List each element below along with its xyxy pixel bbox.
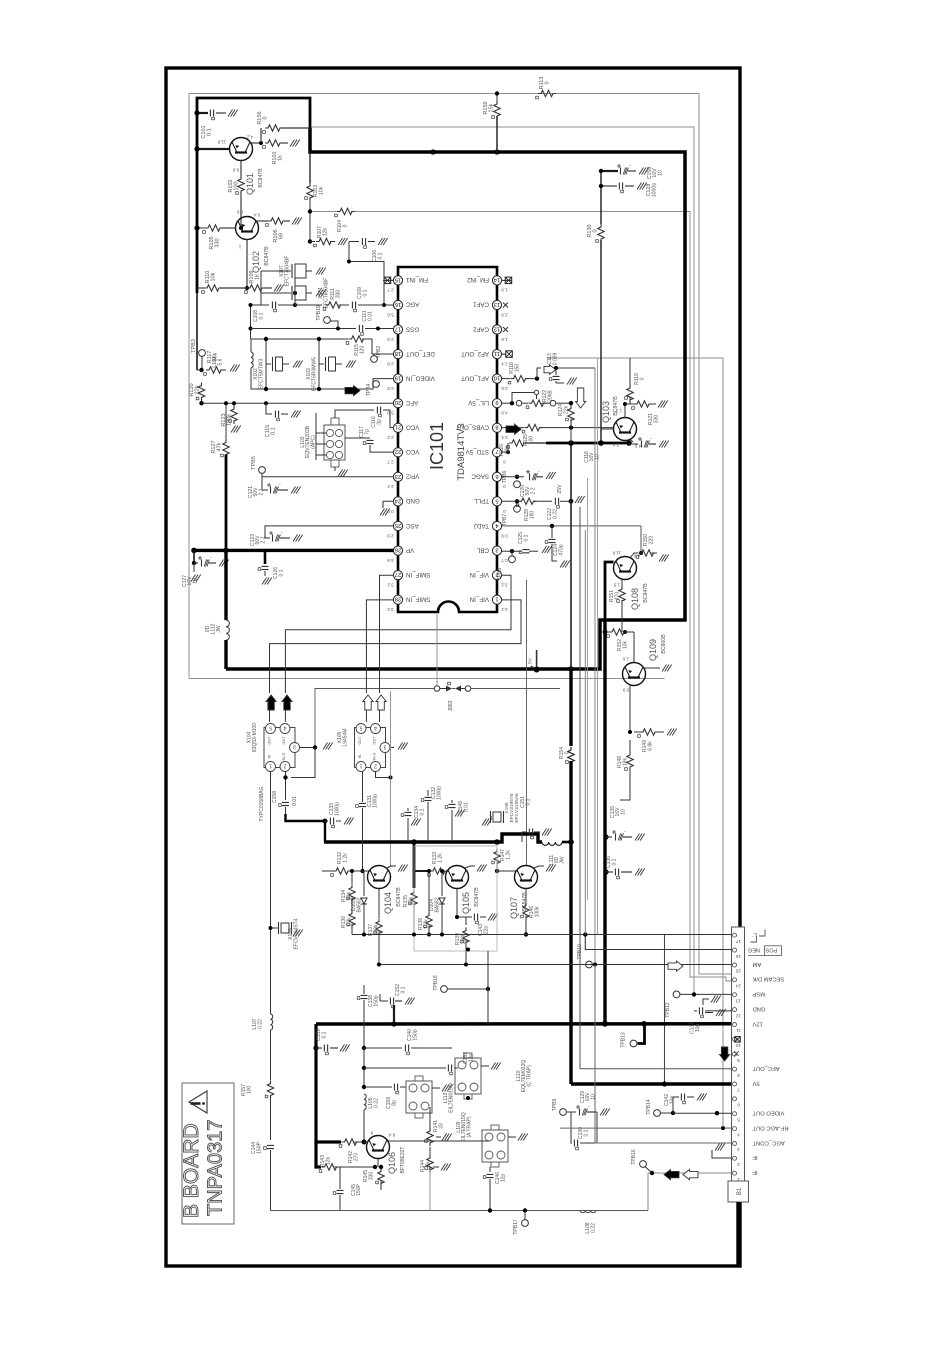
svg-text:6: 6 (737, 1102, 740, 1108)
test point TPB8 (509, 556, 516, 563)
svg-text:10k: 10k (211, 272, 217, 281)
svg-text:3p: 3p (377, 419, 383, 425)
capacitor C143 22p (456, 889, 458, 918)
wire IN feeds (270, 771, 272, 1014)
pin 1 of connector B1 (733, 1171, 737, 1175)
svg-text:2.8: 2.8 (387, 361, 394, 366)
junction (430, 149, 435, 154)
svg-text:150p: 150p (374, 995, 380, 1006)
pin 14 of connector B1 (733, 978, 737, 982)
capacitor C125 0.1 (523, 550, 530, 553)
svg-text:BFT99E32T: BFT99E32T (400, 1147, 406, 1174)
svg-text:IC101: IC101 (427, 422, 447, 470)
junction (568, 666, 574, 672)
capacitor C130 0.1 (571, 1112, 572, 1143)
svg-text:33: 33 (439, 1123, 445, 1129)
svg-text:IN-G: IN-G (373, 752, 377, 760)
svg-text:AFC_OUT: AFC_OUT (752, 1065, 780, 1071)
wire (363, 1068, 365, 1087)
svg-text:Q102: Q102 (251, 251, 261, 273)
svg-text:OUT: OUT (358, 736, 362, 745)
svg-text:12: 12 (736, 1012, 742, 1018)
capacitor C132 1000p (425, 797, 432, 800)
pin 23 VP/2 of IC101 (393, 472, 402, 481)
wire collector Q103 (624, 404, 626, 418)
ground pin 24 (383, 501, 393, 508)
test point TPB3 (199, 350, 206, 357)
svg-text:2.2: 2.2 (530, 487, 536, 494)
svg-text:28: 28 (395, 596, 401, 602)
svg-text:12k: 12k (323, 227, 329, 236)
ground Q104 (387, 866, 396, 868)
svg-text:5: 5 (269, 725, 272, 731)
pin 3 CBL of IC101 (492, 546, 501, 555)
test point TPB7 (515, 499, 519, 503)
crystal X106 EFCV3195T6 (493, 812, 501, 822)
svg-text:0.1: 0.1 (524, 534, 530, 541)
svg-text:2.4: 2.4 (387, 484, 394, 489)
svg-text:6.8k: 6.8k (648, 741, 654, 751)
svg-text:22k: 22k (505, 445, 511, 454)
resistor R147 1.2k (494, 849, 500, 867)
svg-text:AF1_OUT: AF1_OUT (461, 374, 489, 381)
crystal X107 EFCT7004BF (261, 270, 291, 272)
pin 28 SMIF_IN of IC101 (393, 595, 402, 604)
svg-text:Q101: Q101 (245, 173, 255, 195)
svg-text:SAGC: SAGC (471, 473, 489, 480)
svg-text:0.4: 0.4 (253, 212, 260, 217)
svg-text:TPB13: TPB13 (621, 1032, 627, 1048)
svg-text:0.22: 0.22 (591, 1223, 597, 1233)
wire (201, 356, 203, 370)
pin 16 of connector B1 (733, 948, 737, 952)
capacitor C138 150p (363, 985, 365, 994)
transistor Q103 BC847B (614, 418, 637, 441)
arrow tuning (576, 388, 586, 408)
svg-text:0.9: 0.9 (622, 687, 629, 692)
svg-text:L/L'_5V: L/L'_5V (467, 399, 489, 406)
pin 2 of connector B1 (733, 1156, 737, 1160)
test point TPB19 (324, 317, 331, 324)
capacitor C109 0.1 (339, 304, 350, 306)
svg-text:150P: 150P (356, 1184, 362, 1196)
svg-text:2.7: 2.7 (387, 288, 394, 293)
svg-text:20kB: 20kB (548, 390, 554, 402)
svg-text:MSP: MSP (752, 991, 765, 997)
arrow VIF out1 (266, 695, 276, 710)
svg-text:15k: 15k (489, 103, 495, 112)
resistor R135 10k (411, 890, 417, 908)
svg-text:100: 100 (234, 181, 240, 190)
resistor R118 150 (502, 378, 510, 380)
svg-text:1: 1 (269, 763, 272, 769)
pin 21 VCO of IC101 (393, 423, 402, 432)
svg-text:EIL7EN015Q: EIL7EN015Q (449, 1083, 455, 1113)
wire TADJ (502, 525, 641, 527)
crystal X109 EFCV404ST4 (271, 927, 279, 929)
capacitor C133 1000p (325, 820, 328, 822)
svg-text:GND: GND (405, 497, 419, 504)
svg-text:10: 10 (657, 170, 663, 176)
resistor R136 1.2k (349, 911, 355, 929)
svg-text:JW: JW (559, 856, 565, 864)
pin 14 FM_IN2 of IC101 (492, 276, 501, 285)
svg-text:NEG: NEG (748, 947, 760, 953)
svg-text:0.01: 0.01 (292, 796, 298, 806)
svg-text:VCO: VCO (406, 448, 420, 455)
resistor R157 100 (267, 1081, 273, 1099)
inductor L102 5.6 (251, 352, 253, 368)
svg-text:AGC: AGC (405, 301, 419, 308)
capacitor C126 0.1 (264, 550, 267, 564)
svg-text:TPB19: TPB19 (316, 305, 322, 321)
svg-text:2.2: 2.2 (387, 435, 394, 440)
resistor R128 180 (502, 500, 518, 502)
warning triangle (189, 1091, 207, 1113)
capacitor C118 16V 10 (629, 443, 638, 445)
capacitor C117 7p (345, 437, 370, 439)
svg-text:1.6: 1.6 (501, 337, 508, 342)
wire (436, 614, 438, 686)
svg-text:Q104: Q104 (383, 892, 393, 914)
svg-text:2.4: 2.4 (612, 442, 619, 447)
svg-text:0.1: 0.1 (584, 1129, 590, 1136)
filter L109 EIL7EN015Q (A TRAP) (482, 1130, 508, 1162)
wire CBL (502, 550, 521, 552)
svg-text:TYPC0158BAG: TYPC0158BAG (259, 786, 265, 821)
svg-text:12k: 12k (326, 1156, 332, 1165)
wire video feed x664 (664, 935, 666, 1085)
svg-text:100: 100 (247, 1086, 253, 1095)
transistor Q106 BFT99E32T (367, 1136, 390, 1159)
svg-text:4.9: 4.9 (387, 558, 394, 563)
pin 4 TADJ of IC101 (492, 521, 501, 530)
svg-text:9: 9 (495, 399, 498, 405)
svg-text:1k: 1k (255, 274, 261, 280)
svg-text:7p: 7p (365, 429, 371, 435)
svg-text:EFCT6R0MW5: EFCT6R0MW5 (312, 357, 318, 391)
wire (197, 148, 230, 150)
svg-text:5.6: 5.6 (387, 312, 394, 317)
wire IF bottom (271, 1210, 649, 1212)
resistor R156 0 (265, 125, 283, 131)
svg-text:BC847B: BC847B (474, 887, 480, 907)
ground Q105 (465, 866, 475, 868)
resistor R159 15k (496, 94, 498, 102)
svg-text:180: 180 (530, 511, 536, 520)
pin 26 VP of IC101 (393, 546, 402, 555)
svg-text:1.2k: 1.2k (506, 850, 512, 860)
wire rail x571 12V (569, 669, 572, 746)
svg-text:3.2: 3.2 (387, 607, 394, 612)
svg-text:6: 6 (495, 473, 498, 479)
svg-text:C158: C158 (272, 791, 278, 803)
test point TPB6 (515, 475, 519, 479)
svg-text:26: 26 (395, 547, 401, 553)
svg-text:330: 330 (215, 238, 221, 247)
wire gray y678 (189, 678, 665, 680)
svg-text:GND: GND (753, 1006, 766, 1012)
svg-text:AFC: AFC (405, 399, 418, 406)
resistor R105 330 (197, 227, 205, 229)
wire VIF pin 2 (285, 575, 511, 693)
test point TPB17 (523, 1208, 527, 1212)
svg-text:2.4: 2.4 (501, 361, 508, 366)
svg-text:10: 10 (620, 809, 626, 815)
pin 7 of connector B1 (733, 1082, 737, 1086)
wire 5V rail x605 (603, 620, 606, 1024)
svg-text:1000p: 1000p (437, 786, 443, 800)
resistor R146 100k (525, 889, 527, 903)
svg-text:Q105: Q105 (461, 892, 471, 914)
wire 12V bus (226, 128, 685, 669)
transistor Q108 BC847B (614, 557, 637, 580)
svg-text:BC847B: BC847B (258, 168, 264, 188)
pin 7 STD_5V of IC101 (492, 448, 501, 457)
svg-text:16: 16 (736, 953, 742, 959)
svg-text:0: 0 (263, 116, 269, 119)
svg-text:TPB5: TPB5 (251, 456, 257, 470)
arrow VIF out2 (282, 695, 292, 710)
svg-text:10: 10 (594, 454, 600, 460)
transistor Q102 BC847B (236, 217, 259, 240)
svg-text:BA582: BA582 (357, 897, 363, 912)
pin 15 FM_IN1 of IC101 (393, 276, 402, 285)
svg-text:TPB3: TPB3 (191, 339, 197, 353)
svg-text:0: 0 (503, 509, 506, 514)
svg-text:10p: 10p (695, 1024, 701, 1033)
wire bus y127 (310, 127, 694, 995)
wire VP net (194, 549, 393, 552)
pin 4 of connector B1 (733, 1127, 737, 1131)
resistor R145 330 (378, 1169, 384, 1187)
svg-text:TNPA0317: TNPA0317 (205, 1120, 227, 1216)
svg-text:2.2: 2.2 (260, 536, 266, 543)
svg-text:11.8: 11.8 (612, 550, 621, 555)
svg-text:15: 15 (736, 968, 742, 974)
resistor R117 68k (206, 367, 224, 373)
border frame (166, 68, 740, 1266)
resistor R125 100 (502, 427, 506, 429)
svg-text:0.1: 0.1 (401, 986, 407, 993)
wire ASC pin 25 (265, 526, 393, 538)
wire (260, 271, 262, 305)
svg-text:1.5: 1.5 (613, 582, 620, 587)
resistor R143 12k (322, 1164, 340, 1170)
no-connect mark pin 14 (505, 277, 512, 284)
svg-text:470p: 470p (559, 544, 565, 555)
svg-text:2.8: 2.8 (387, 386, 394, 391)
pin 1 VIF_IN of IC101 (492, 595, 501, 604)
resistor R142 270 (342, 1139, 360, 1145)
svg-text:POS: POS (765, 947, 777, 953)
svg-text:1.2k: 1.2k (347, 917, 353, 927)
svg-text:TADJ: TADJ (474, 522, 489, 529)
svg-text:2.6: 2.6 (501, 386, 508, 391)
pin 8 CVBS_OUT of IC101 (492, 423, 501, 432)
svg-text:(A TRAP): (A TRAP) (466, 1116, 472, 1137)
svg-text:2.9: 2.9 (387, 533, 394, 538)
wire AFC_OUT net (580, 507, 732, 1069)
capacitor C131 1000p (362, 771, 364, 802)
svg-text:8.8: 8.8 (232, 167, 239, 172)
wire riser 585 (584, 530, 586, 935)
capacitor C136 0.1 (603, 869, 608, 874)
wire collector Q106 (389, 1140, 431, 1142)
capacitor C129 16V 10 (566, 1111, 576, 1113)
resistor R141 33 (429, 1107, 431, 1128)
svg-text:FM_IN2: FM_IN2 (466, 276, 489, 283)
svg-text:4: 4 (283, 725, 286, 731)
resistor R113 0 (538, 90, 556, 96)
svg-text:14: 14 (736, 983, 742, 989)
test point TPB9 (560, 1109, 567, 1116)
test point TPB14 (654, 1110, 661, 1117)
wire 5V STD thick (546, 442, 629, 445)
wire box outline (414, 846, 497, 951)
test point TPB2 (371, 356, 378, 363)
wire TPB13 stub (638, 1024, 645, 1044)
wire (562, 841, 571, 844)
svg-text:0.1: 0.1 (322, 1031, 328, 1038)
resistor R151 470 (621, 580, 623, 587)
svg-text:11: 11 (494, 350, 500, 356)
svg-text:13: 13 (494, 301, 500, 307)
ground Q109 (643, 667, 660, 669)
resistor R120 22k (198, 383, 204, 401)
svg-text:2: 2 (737, 1161, 740, 1167)
capacitor C128 1000p (601, 185, 617, 187)
wire (363, 1048, 365, 1068)
wire POS/NEG net (585, 935, 731, 950)
resistor R123 100k (233, 403, 235, 406)
wire X105 IN-G (376, 771, 391, 778)
svg-text:8.9: 8.9 (236, 209, 243, 214)
svg-text:VIF_IN: VIF_IN (470, 571, 489, 578)
svg-text:330: 330 (654, 415, 660, 424)
svg-text:330: 330 (336, 290, 342, 299)
pin 20 AFC of IC101 (393, 399, 402, 408)
pin 19 VIDEO_IN of IC101 (393, 374, 402, 383)
svg-text:CBL: CBL (476, 546, 489, 553)
pin 10 AF1_OUT of IC101 (492, 374, 501, 383)
svg-text:7: 7 (737, 1087, 740, 1093)
svg-text:Q109: Q109 (648, 639, 658, 661)
capacitor C122 0.22 (555, 498, 558, 505)
pin 24 GND of IC101 (393, 497, 402, 506)
wire ground riser X104 (315, 689, 434, 748)
wire AFT bus x723 (547, 358, 731, 1128)
resistor R115 120 (349, 336, 367, 342)
resistor R130 0 (598, 224, 604, 242)
svg-text:47k: 47k (217, 442, 223, 451)
svg-text:AF2_OUT: AF2_OUT (461, 350, 489, 357)
filter X104 83Q53-M100 (264, 728, 295, 768)
pin 11 AF2_OUT of IC101 (492, 350, 501, 359)
svg-text:Q106: Q106 (387, 1152, 397, 1174)
svg-text:10k: 10k (347, 891, 353, 900)
svg-text:IN: IN (268, 754, 272, 758)
svg-text:18: 18 (395, 350, 401, 356)
capacitor C116 3p (335, 410, 374, 418)
svg-text:4.0: 4.0 (501, 411, 508, 416)
resistor R109 1k (247, 285, 265, 291)
wire AGC_CONT net (595, 965, 732, 1144)
potentiometer R122 20kB (529, 400, 547, 406)
svg-text:VIDEO OUT: VIDEO OUT (752, 1110, 784, 1116)
capacitor C151 0.1 (529, 829, 532, 836)
svg-text:(C TRAP): (C TRAP) (526, 1065, 532, 1087)
capacitor C137 10p (705, 1010, 732, 1012)
svg-text:17: 17 (395, 325, 401, 331)
filter loop (251, 338, 348, 340)
inductor L112 JW (224, 550, 227, 620)
wire AFC (202, 402, 394, 404)
svg-text:22p: 22p (484, 926, 490, 935)
svg-text:Q103: Q103 (601, 401, 611, 423)
wire emitter Q106 (377, 1159, 379, 1168)
test point TPB10 (586, 961, 593, 968)
svg-text:TPB9: TPB9 (552, 1099, 558, 1112)
transistor Q104 BC847B (368, 866, 391, 889)
svg-text:10: 10 (736, 1042, 742, 1048)
resistor R150 220 (639, 550, 657, 556)
svg-text:5V: 5V (528, 657, 534, 664)
svg-text:IN: IN (358, 754, 362, 758)
svg-text:11: 11 (736, 1027, 741, 1033)
svg-text:2.9: 2.9 (387, 337, 394, 342)
svg-text:1.5k: 1.5k (426, 1161, 432, 1171)
diode D103 BA582 (363, 871, 365, 896)
svg-text:24: 24 (394, 497, 401, 503)
svg-text:0: 0 (503, 484, 506, 489)
svg-text:10: 10 (192, 578, 198, 584)
svg-text:23: 23 (395, 473, 401, 479)
capacitor C140 150p (364, 1047, 402, 1049)
svg-text:EFCT7004BF: EFCT7004BF (285, 256, 291, 287)
wire (286, 814, 326, 842)
svg-text:120: 120 (360, 346, 366, 355)
svg-text:TPLL: TPLL (474, 497, 489, 504)
wire VIF pin 1 (270, 600, 522, 693)
svg-text:SMIF_IN: SMIF_IN (406, 571, 430, 578)
ground L103 (334, 467, 336, 471)
pin 17 GSS of IC101 (393, 325, 402, 334)
inductor L108 0.22 (580, 1211, 596, 1213)
svg-text:1k: 1k (278, 155, 284, 161)
wire 12V rail bottom (316, 1022, 732, 1026)
wire SMIF pin 28 (366, 600, 393, 693)
svg-text:18k: 18k (623, 757, 629, 766)
svg-text:0.039: 0.039 (553, 353, 559, 366)
svg-text:0.22: 0.22 (553, 509, 559, 519)
wire X105 pin3 gnd (390, 747, 394, 749)
test point TPB13 (630, 1040, 637, 1047)
arrow IF solid (664, 1170, 679, 1180)
capacitor C106 0.1 (349, 242, 393, 306)
svg-text:10p: 10p (670, 1096, 676, 1105)
pin 17 of connector B1 (733, 933, 737, 937)
wire block outline (197, 98, 310, 293)
transistor Q101 BC847B (230, 138, 253, 161)
svg-text:4: 4 (374, 725, 377, 731)
test point TPB12 (673, 991, 680, 998)
svg-text:2.7: 2.7 (387, 460, 394, 465)
svg-text:20: 20 (395, 399, 401, 405)
svg-text:IF: IF (752, 1169, 758, 1175)
wire TADJ to R150 (640, 526, 642, 553)
capacitor C111 0.01 (359, 325, 362, 332)
